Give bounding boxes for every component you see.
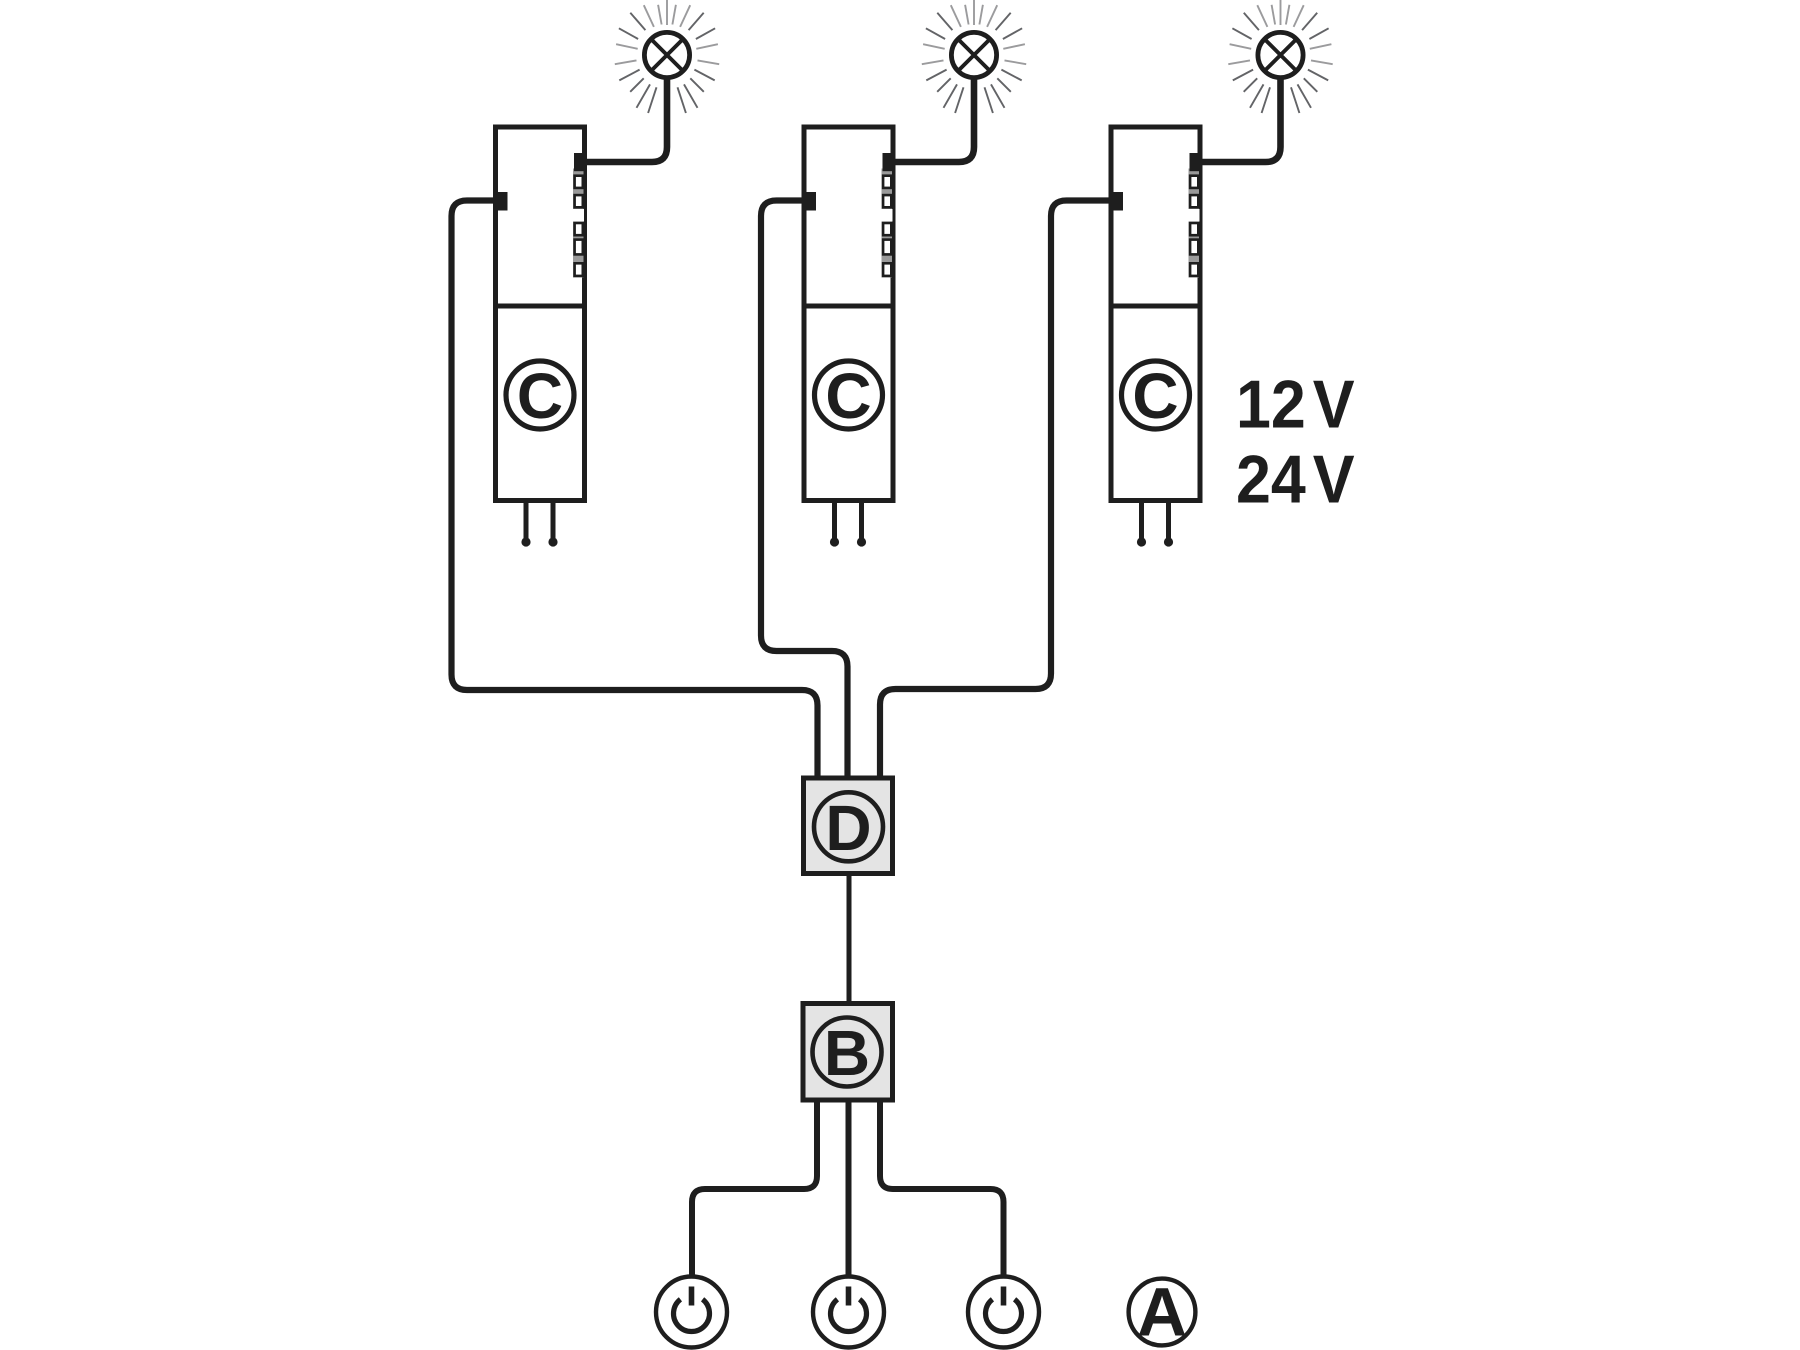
wire from driver C2 input to distributor D [761, 201, 848, 779]
svg-text:12V: 12V [1236, 366, 1355, 442]
driver module C2 [803, 127, 896, 547]
lamp E2 [922, 0, 1026, 113]
svg-text:24V: 24V [1236, 441, 1355, 517]
value label 12 V [1236, 366, 1355, 442]
driver box B [803, 1004, 893, 1101]
switch S2 [813, 1277, 884, 1348]
switch S1 [656, 1277, 727, 1348]
wire from driver C1 output to lamp E1 [583, 77, 667, 162]
wire from driver C1 input to distributor D [452, 201, 818, 779]
driver module C3 [1110, 127, 1203, 547]
driver module C1 [494, 127, 587, 547]
lamp E3 [1228, 0, 1332, 113]
svg-text:D: D [825, 792, 871, 864]
wire from driver C3 input to distributor D [880, 201, 1114, 779]
wire from distributor D to driver box B [847, 875, 852, 1002]
svg-text:B: B [824, 1017, 870, 1089]
value label 24 V [1236, 441, 1355, 517]
wire from driver box B to switch S2 [846, 1101, 852, 1275]
switch S3 [968, 1277, 1039, 1348]
wire from driver box B to switch S1 [692, 1101, 817, 1275]
lamp E1 [615, 0, 719, 113]
label A [1129, 1274, 1196, 1350]
svg-text:A: A [1137, 1274, 1187, 1350]
wire from driver box B to switch S3 [880, 1101, 1004, 1275]
wire from driver C2 output to lamp E2 [891, 77, 974, 162]
distributor D box [804, 778, 893, 874]
wire from driver C3 output to lamp E3 [1198, 77, 1281, 162]
